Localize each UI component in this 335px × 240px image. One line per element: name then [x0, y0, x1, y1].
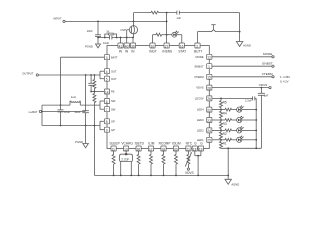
svg-text:26: 26 — [137, 147, 141, 151]
svg-text:PGND: PGND — [85, 45, 93, 49]
svg-text:5: 5 — [106, 78, 108, 82]
svg-text:R1: R1 — [223, 142, 227, 146]
svg-text:9: 9 — [106, 129, 108, 133]
svg-text:LED4: LED4 — [197, 108, 204, 112]
resistor R20 below pin20 — [175, 151, 178, 176]
ground PGND — [85, 38, 101, 49]
svg-text:R3: R3 — [223, 122, 227, 126]
wire LED1 row with resistor and LED D1b — [212, 136, 256, 143]
svg-text:BATT: BATT — [111, 55, 118, 59]
svg-text:MODE: MODE — [263, 52, 272, 56]
wire VDVS — [212, 83, 271, 89]
pin 2 BUTT — [194, 43, 202, 54]
svg-text:OUT: OUT — [111, 69, 117, 73]
svg-text:28: 28 — [207, 86, 211, 90]
svg-text:R4: R4 — [223, 111, 227, 115]
pin 6 SW — [104, 99, 115, 104]
svg-text:LED3: LED3 — [197, 118, 204, 122]
svg-text:OVP: OVP — [120, 28, 126, 32]
capacitor C6 44uF output — [74, 75, 89, 144]
pin 12 MODE — [196, 54, 212, 59]
resistor R2 stat led series — [153, 33, 172, 43]
pin 11 SLEEP — [110, 142, 120, 152]
pin 20 IOLIM — [172, 142, 181, 152]
wire INPUT to node at x166.6 — [65, 20, 167, 22]
svg-text:4: 4 — [106, 70, 108, 74]
wire LED return row — [221, 147, 261, 149]
capacitor C4 1uF vdvs — [258, 88, 269, 149]
resistor R5 ladder — [220, 98, 227, 109]
resistor R2 ladder — [220, 130, 227, 139]
svg-text:NTC: NTC — [186, 142, 193, 146]
note VTERM levels — [280, 75, 290, 84]
svg-text:INGT: INGT — [149, 50, 157, 54]
svg-text:VDVS: VDVS — [196, 86, 204, 90]
wire FB row — [90, 91, 104, 93]
svg-text:23: 23 — [207, 119, 211, 123]
pin 23 LED3 — [197, 118, 212, 123]
svg-text:20: 20 — [174, 147, 178, 151]
svg-text:INSNS: INSNS — [162, 50, 172, 54]
wire LED3 row with resistor and LED D3 — [212, 116, 256, 123]
pin 10 INGT — [149, 43, 157, 54]
resistor R19a below pin19 to VDVS terminal — [195, 151, 201, 176]
svg-text:26: 26 — [207, 97, 211, 101]
wire IN pin stubs — [120, 37, 134, 43]
svg-text:SW: SW — [111, 99, 116, 103]
capacitor C3 1uF series top — [176, 11, 181, 21]
IC U1 outline — [107, 46, 209, 149]
svg-text:40: 40 — [125, 44, 129, 48]
wire battery vertical x42 — [41, 105, 43, 125]
svg-text:2.2uF: 2.2uF — [121, 158, 129, 162]
capacitor C2 10uF series on bus — [103, 36, 112, 46]
capacitor C7 feedback — [88, 75, 94, 92]
wire LED cathode rail — [255, 98, 257, 148]
resistor R3 ladder — [220, 120, 227, 130]
pin 28 VDVS — [196, 85, 212, 90]
svg-text:VDVS: VDVS — [259, 83, 267, 87]
svg-text:AGND: AGND — [243, 44, 251, 48]
svg-text:ENBST: ENBST — [195, 64, 204, 68]
wire GP pins bar — [100, 121, 104, 129]
wire LED2 row with resistor and LED D2 — [212, 126, 256, 133]
pin 26 ISETD — [135, 142, 145, 152]
svg-text:12: 12 — [207, 56, 211, 60]
pin 39 IN — [130, 43, 135, 54]
wire row C ground link — [42, 125, 100, 127]
svg-text:SW: SW — [111, 107, 116, 111]
ground AGND bottom — [225, 179, 239, 186]
svg-text:R2: R2 — [223, 132, 227, 136]
pin 1 ENBST — [195, 64, 212, 69]
potentiometer RV1 below pin13 — [120, 151, 133, 176]
svg-text:VCHRG: VCHRG — [121, 142, 133, 146]
svg-text:22: 22 — [207, 108, 211, 112]
wire SW pins bar — [100, 101, 104, 109]
pin 15 VTERM — [194, 74, 212, 79]
pin 27 INSNS — [162, 43, 172, 54]
inductor L1 1uH — [42, 95, 100, 105]
pin 4 OUT — [104, 69, 117, 74]
svg-text:1uF: 1uF — [264, 94, 269, 98]
pin 8 GP — [104, 119, 115, 124]
wire input bus y37.5 — [97, 37, 133, 39]
capacitor C1 10uF input — [87, 21, 101, 37]
svg-text:OUT: OUT — [111, 77, 117, 81]
svg-text:8: 8 — [106, 120, 108, 124]
pin 5 OUT — [104, 76, 117, 81]
svg-text:16: 16 — [180, 44, 184, 48]
capacitor C8 10uF battery — [58, 105, 71, 126]
resistor R18 below pin18 — [162, 151, 165, 176]
resistor R11 below pin11 — [112, 151, 115, 176]
wire LDO3V row with capacitor C5 — [212, 96, 256, 102]
transistor Q1 OVP mosfet — [120, 21, 137, 38]
svg-text:15: 15 — [207, 76, 211, 80]
wire LED to STAT pin — [177, 35, 182, 43]
resistor R4 ladder — [220, 110, 227, 120]
svg-text:18: 18 — [162, 147, 166, 151]
svg-text:10uF: 10uF — [103, 41, 109, 45]
svg-text:25: 25 — [207, 139, 211, 143]
svg-text:39: 39 — [131, 44, 135, 48]
svg-text:Li+BAT: Li+BAT — [29, 110, 38, 114]
resistor R21 fb top — [93, 75, 96, 92]
LED D1 status — [172, 31, 179, 37]
svg-text:0: 4.2V: 0: 4.2V — [280, 80, 289, 84]
pin 13 VCHRG — [121, 142, 133, 152]
ground PGND 2 — [75, 140, 88, 148]
svg-text:OUTPUT: OUTPUT — [22, 71, 33, 75]
pin 19b G — [198, 142, 203, 152]
pin 7 SW — [104, 107, 115, 112]
resistor R17 below pin17 — [150, 151, 153, 176]
svg-text:13: 13 — [124, 147, 128, 151]
node OUTPUT terminal — [22, 71, 38, 76]
junction dot input-cap tap — [97, 21, 99, 23]
svg-text:3: 3 — [106, 56, 108, 60]
wire MODE — [212, 52, 274, 58]
svg-text:STAT: STAT — [178, 50, 186, 54]
svg-text:ILIM: ILIM — [148, 142, 155, 146]
resistor R1 ladder — [220, 140, 227, 149]
svg-text:10: 10 — [151, 44, 155, 48]
wire vertical node x166.6 — [166, 13, 168, 43]
svg-text:FB: FB — [111, 90, 115, 94]
svg-text:21: 21 — [186, 147, 190, 151]
svg-text:LDO3V: LDO3V — [195, 97, 204, 101]
svg-text:IOLIM: IOLIM — [172, 142, 181, 146]
svg-text:GP: GP — [111, 119, 115, 123]
svg-text:SLEEP: SLEEP — [110, 142, 120, 146]
ground AGND top right — [236, 42, 250, 48]
resistor R 1K — [105, 30, 117, 38]
svg-text:18: 18 — [193, 147, 197, 151]
svg-text:6: 6 — [106, 100, 108, 104]
wire BATT pin to rail — [60, 57, 105, 106]
svg-text:1: 1 — [208, 65, 210, 69]
pin 18 RCOMP — [159, 142, 171, 152]
svg-text:ISETD: ISETD — [135, 142, 145, 146]
svg-text:14: 14 — [105, 90, 109, 94]
svg-text:BUTT: BUTT — [194, 50, 202, 54]
svg-text:17: 17 — [149, 147, 153, 151]
svg-text:2: 2 — [196, 44, 198, 48]
wire ground bus — [94, 174, 228, 176]
svg-text:INPUT: INPUT — [54, 17, 62, 21]
svg-text:1K: 1K — [106, 30, 109, 34]
pin 3 BATT — [104, 55, 118, 60]
svg-text:27: 27 — [165, 44, 169, 48]
svg-text:1uF: 1uF — [176, 16, 181, 20]
svg-text:7: 7 — [106, 108, 108, 112]
pin 21 NTC — [186, 142, 193, 152]
svg-text:VTERM: VTERM — [194, 75, 204, 79]
svg-text:R5: R5 — [223, 101, 227, 105]
wire OUTPUT to OUT bar — [38, 74, 100, 76]
pin 25 LED1 — [197, 137, 212, 142]
svg-text:1uH: 1uH — [71, 95, 76, 99]
wire LED4 row with resistor and LED D4 — [212, 106, 256, 113]
node Li+BAT terminal — [29, 110, 43, 114]
pin 40 IN — [124, 43, 129, 54]
svg-text:2.2uF: 2.2uF — [245, 99, 252, 103]
resistor R26 below pin26 — [137, 151, 140, 176]
svg-text:RCOMP: RCOMP — [159, 142, 171, 146]
wire battery row — [42, 111, 86, 113]
wire ENBST — [212, 62, 274, 68]
svg-text:VDVS: VDVS — [185, 171, 194, 175]
pin 22 LED4 — [197, 107, 212, 112]
switch S1 pushbutton — [198, 25, 240, 43]
pin 16 STAT — [178, 43, 186, 54]
resistor R22 fb bottom — [93, 92, 96, 176]
svg-text:24: 24 — [207, 129, 211, 133]
svg-text:ENBST: ENBST — [262, 62, 272, 66]
svg-text:11: 11 — [112, 147, 116, 151]
svg-text:1: 4.35V: 1: 4.35V — [280, 75, 290, 79]
thermistor RT1 NTC — [185, 151, 194, 175]
pin 17 ILIM — [148, 142, 155, 152]
wire OUT pins bar — [100, 71, 104, 79]
svg-text:PGND: PGND — [75, 140, 83, 144]
pin 24 LED2 — [197, 128, 212, 133]
pin 41 IN — [118, 43, 123, 54]
svg-text:41: 41 — [119, 44, 123, 48]
pin 9 GP — [104, 127, 115, 132]
pin 14 FB — [104, 89, 114, 94]
wire top line right segment — [166, 12, 241, 42]
svg-text:VTERM: VTERM — [262, 72, 273, 76]
wire VTERM — [212, 72, 274, 78]
wire AGND drop bottom — [227, 148, 229, 179]
pin 19 G — [192, 142, 197, 152]
svg-text:LED2: LED2 — [197, 129, 204, 133]
svg-text:GP: GP — [111, 128, 115, 132]
node INPUT terminal — [54, 17, 66, 23]
svg-text:MODE: MODE — [196, 55, 204, 59]
svg-text:AGND: AGND — [231, 182, 239, 186]
svg-text:19: 19 — [199, 147, 203, 151]
wire OVP drain to top line — [134, 11, 177, 26]
svg-text:10uF: 10uF — [87, 29, 93, 33]
pin 26b LDO3V — [195, 96, 212, 101]
junction dots ladder taps — [220, 109, 222, 141]
